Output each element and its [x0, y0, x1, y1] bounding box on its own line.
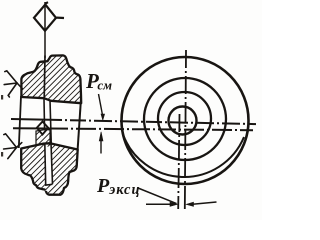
wire: bore bottom edge: [45, 183, 53, 186]
clamp symbol (upper left crow-foot): [4, 71, 22, 97]
wire: web wall right: [50, 100, 52, 184]
wire: part centerline through section: [43, 56, 46, 100]
bore opening through hub (white strip): [45, 146, 53, 184]
wire: bore wall right (lower): [51, 143, 53, 184]
node A: datum diamond symbol (top): [34, 2, 64, 31]
lower rim block (hatched section): [21, 144, 77, 195]
wire: vertical centerline of section view: [44, 2, 46, 58]
vertical axis V2 (outer): [185, 50, 186, 209]
stray scan mark: [1, 95, 3, 100]
circle 2: [144, 78, 226, 160]
bore circle: [169, 107, 197, 135]
wire: bore wall left (lower): [44, 143, 47, 185]
wire: web wall left: [44, 99, 46, 186]
left-pointing arrow (Pэксц): [186, 202, 216, 206]
up arrow for Pсм: [99, 132, 103, 154]
hub bottom face line: [44, 144, 58, 147]
clamp symbol (lower left crow-foot): [4, 134, 22, 159]
leader + right-pointing arrow (Pэксц): [138, 188, 178, 206]
axis A: outer-surface axis (dash-dot, tilted): [11, 119, 256, 124]
stray scan mark: [1, 152, 3, 157]
eccentric outer arc (doubled outline at bottom): [123, 133, 245, 177]
hatch below bore end: [45, 185, 52, 191]
wire: left face edge: [19, 96, 21, 148]
hub web hatched area (below axis): [36, 130, 50, 145]
circle 3: [158, 92, 211, 145]
upper rim block (hatched section): [21, 55, 81, 103]
leader + down arrow for Pсм: [99, 94, 105, 120]
axis B: bore axis (dash-dot, tilted): [13, 128, 253, 130]
outer circle: [122, 57, 249, 184]
vertical axis V1 (bore): [178, 114, 179, 209]
wire: part right edge: [77, 100, 81, 165]
datum diamond symbol (in bore): [37, 122, 48, 135]
